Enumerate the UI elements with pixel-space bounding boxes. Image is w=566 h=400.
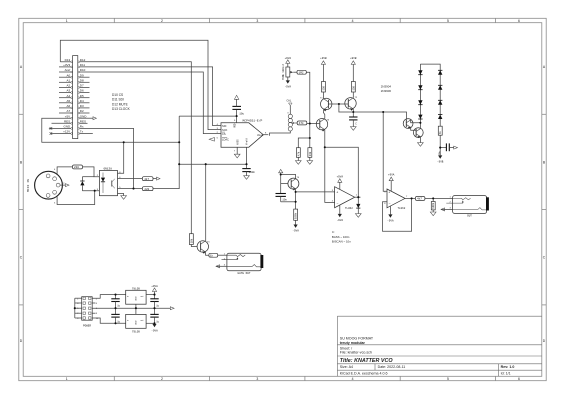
capacitor C8: [150, 295, 159, 309]
svg-text:A5: A5: [67, 99, 71, 103]
svg-text:+9VB: +9VB: [320, 57, 327, 60]
capacitor C 10u at DAC VDD: [232, 99, 244, 123]
transistor Q6 gate NPN: [197, 241, 210, 254]
wire divider branch: [298, 138, 310, 148]
wire C2 node to Q5 collector: [281, 173, 296, 193]
svg-text:47k: 47k: [296, 151, 300, 156]
diode D1 clamp: [356, 197, 360, 213]
wire GND middle rail: [92, 307, 170, 309]
wire branch to DAC VDD: [179, 115, 236, 117]
wire net D12 MUTE down to gate resistor: [80, 62, 192, 234]
svg-text:4: 4: [352, 19, 354, 23]
svg-text:C:: C:: [332, 230, 335, 234]
capacitor C2: [276, 194, 288, 202]
svg-text:-9VB: -9VB: [437, 161, 444, 164]
wire U4 out to +9VA: [146, 294, 154, 296]
svg-text:SDI: SDI: [222, 124, 227, 128]
ground at R12: [430, 212, 436, 216]
svg-text:220: 220: [74, 166, 79, 169]
svg-text:GATE OUT: GATE OUT: [238, 272, 251, 275]
svg-text:79L09: 79L09: [132, 330, 140, 333]
svg-text:MCP4921-E/P: MCP4921-E/P: [243, 118, 263, 122]
resistor R3 220: [142, 187, 153, 191]
ground at R7: [307, 157, 313, 164]
wire Q4 collector to chain node: [411, 120, 421, 123]
svg-text:A2: A2: [67, 84, 71, 88]
power -9VB at R15: [437, 155, 444, 163]
ground at D1: [355, 214, 361, 218]
power flag at C2 node: [279, 169, 283, 172]
transistor Q3 PNP mirror right: [345, 92, 358, 111]
label arrow at C5: [454, 146, 458, 149]
connector P1 Arduino Nano socket: [71, 56, 80, 139]
op-amp U3B TL062: [384, 189, 408, 210]
wire node to op2 input: [383, 112, 387, 191]
wire Q1 emitter node: [325, 130, 335, 203]
svg-text:+9VB: +9VB: [350, 57, 357, 60]
svg-text:Size: A4: Size: A4: [340, 365, 353, 369]
power +9VB at R8: [320, 57, 327, 81]
svg-text:+12V: +12V: [63, 130, 70, 134]
wire gate collector drop: [205, 164, 207, 241]
power -9VA at TUNE pot: [285, 77, 292, 89]
svg-text:33k: 33k: [308, 151, 312, 156]
wire Q4 emitter to Q7 base: [411, 127, 416, 130]
svg-text:Title: KNATTER VCO: Title: KNATTER VCO: [340, 358, 394, 364]
svg-text:Date: 2022-08-11: Date: 2022-08-11: [378, 365, 406, 369]
wire J4 pin4 pin8 stubs: [92, 303, 95, 313]
wire R1 to opto pin2: [83, 167, 100, 177]
svg-text:MIDI IN: MIDI IN: [27, 179, 30, 192]
svg-text:CAL: CAL: [287, 100, 292, 103]
resistor R4 1M at TUNE wiper: [297, 70, 306, 74]
wire U5 out to -9VA: [146, 322, 154, 324]
svg-text:D12 MUTE: D12 MUTE: [112, 102, 128, 106]
svg-text:A4: A4: [67, 94, 71, 98]
svg-text:+: +: [388, 190, 390, 194]
wire R14 to J3: [218, 254, 227, 256]
svg-text:D12: D12: [80, 58, 86, 62]
regulator U4 78L09: [126, 287, 146, 304]
svg-text:GND: GND: [80, 114, 88, 118]
svg-text:−: −: [337, 202, 339, 206]
svg-text:OUT: OUT: [467, 214, 472, 217]
svg-text:A3: A3: [67, 89, 71, 93]
no-connect X marks: [50, 127, 53, 135]
transistor Q2 PNP mirror left: [320, 92, 332, 111]
wire +12V rail to U4: [92, 295, 126, 299]
svg-text:out: out: [141, 319, 144, 322]
svg-text:D11 SDI: D11 SDI: [112, 98, 124, 102]
pin LDAC input arrow: [209, 138, 214, 142]
wire J2 pin3 with label arrow: [441, 208, 453, 211]
wire net D11 SDI: [80, 67, 221, 126]
svg-text:VDD: VDD: [233, 123, 236, 128]
transistor Q7 NPN right: [413, 128, 423, 138]
resistor R11 4k7: [415, 197, 425, 201]
svg-text:BASS ~ 100n: BASS ~ 100n: [332, 235, 350, 239]
svg-text:10u: 10u: [439, 150, 442, 155]
wire Q7 emitter to ground: [419, 137, 421, 143]
power +9VB at R9: [350, 57, 357, 81]
svg-text:10u: 10u: [239, 112, 244, 115]
svg-text:TL062: TL062: [398, 207, 406, 210]
resistor R10 emitter load: [294, 202, 298, 221]
svg-text:+9VA: +9VA: [151, 285, 158, 288]
svg-text:6: 6: [518, 19, 520, 23]
connector J3 GATE OUT jack: [222, 253, 264, 275]
svg-text:+5V: +5V: [65, 114, 70, 118]
potentiometer RV1 TUNE 100k: [282, 64, 297, 80]
capacitor C 100n at VouA: [242, 164, 255, 175]
svg-text:150: 150: [322, 85, 325, 90]
wire -12V rail to U5: [92, 318, 126, 323]
capacitor C7: [111, 308, 120, 323]
svg-text:D13: D13: [65, 58, 71, 62]
wire Q5 emitter to op1 +in: [296, 189, 335, 202]
wire opto Vcc riser: [118, 142, 124, 173]
svg-text:100k: 100k: [432, 202, 435, 209]
svg-text:1: 1: [66, 19, 68, 23]
svg-text:A6: A6: [67, 104, 71, 108]
wire U3B feedback loop: [383, 198, 412, 231]
svg-text:Id: 1/1: Id: 1/1: [501, 372, 511, 376]
svg-text:78L09: 78L09: [132, 287, 140, 290]
wire diode to opto pin3: [82, 190, 99, 192]
wire R11 to jack: [425, 197, 453, 199]
wire J3 pin3 with label arrow: [216, 265, 227, 268]
svg-text:GND: GND: [64, 125, 72, 129]
wire J4 left pins tie: [75, 298, 82, 318]
wire net D13 CLOCK to DAC SCK: [60, 61, 70, 63]
svg-text:TL062: TL062: [345, 207, 353, 210]
power +9VA at TUNE pot: [285, 57, 292, 67]
svg-text:LDAC: LDAC: [222, 137, 229, 141]
ground at DAC AVSS: [234, 147, 240, 158]
svg-text:5: 5: [447, 377, 449, 381]
svg-text:RES: RES: [80, 119, 86, 123]
wire net VouA horizontal: [179, 147, 246, 164]
wire C2 bottom to emitter node: [281, 201, 296, 203]
connector J2 OUT jack: [446, 196, 489, 218]
svg-text:Tx: Tx: [80, 130, 84, 134]
svg-text:2N3904: 2N3904: [381, 84, 392, 88]
wire net D10 CS: [80, 72, 221, 134]
diode D10 1N4148: [80, 177, 94, 191]
resistor R1 220: [73, 165, 83, 169]
svg-text:D5: D5: [80, 94, 84, 98]
svg-text:AVSS: AVSS: [236, 139, 239, 145]
connector right pin labels: [80, 58, 88, 134]
svg-text:D7: D7: [80, 84, 84, 88]
svg-text:VrefA: VrefA: [246, 137, 249, 145]
svg-text:220: 220: [144, 188, 149, 191]
svg-text:treuty modular: treuty modular: [340, 341, 366, 345]
connector J1 MIDI DIN socket: [27, 169, 65, 204]
resistor R7: [308, 148, 312, 158]
svg-text:1: 1: [66, 377, 68, 381]
svg-text:6: 6: [518, 377, 520, 381]
resistor R6: [296, 148, 300, 158]
wire MIDI pin5 loop: [57, 191, 95, 205]
transistor Q5 NPN buffer: [288, 177, 300, 190]
resistor R9: [351, 82, 355, 93]
power +9VA arrow: [151, 285, 158, 295]
svg-text:5: 5: [447, 19, 449, 23]
wire Q1 collector to Q2: [323, 110, 324, 119]
wire opto pin6 to R2: [118, 178, 143, 180]
wire CAL node to Q1 base: [307, 123, 317, 125]
power +9VA at U3A: [337, 175, 344, 189]
resistor R2 4k7: [142, 177, 153, 181]
wire Q6 emitter to R14: [206, 252, 209, 255]
svg-text:D10 CS: D10 CS: [112, 93, 123, 97]
svg-text:D9: D9: [80, 73, 84, 77]
svg-text:2N3906: 2N3906: [381, 89, 392, 93]
svg-text:KiCad E.D.A. eeschema 4.0.6: KiCad E.D.A. eeschema 4.0.6: [340, 372, 388, 376]
svg-text:GND: GND: [136, 296, 138, 301]
svg-text:in: in: [127, 320, 129, 322]
svg-text:D8: D8: [80, 78, 84, 82]
svg-text:150: 150: [352, 85, 355, 90]
wire chain node to Q7 collector: [419, 123, 421, 129]
svg-text:-9VA: -9VA: [387, 220, 394, 223]
power -9VA at U3B: [387, 206, 394, 223]
diode chain D2-D5 left: [418, 64, 422, 123]
svg-text:A1: A1: [67, 78, 71, 82]
wire Q3 collector to node: [352, 109, 354, 112]
svg-text:B/SCAN ~ 10n: B/SCAN ~ 10n: [332, 239, 351, 243]
wire DAC output stub pin 8: [263, 134, 268, 136]
wire net Rx to optocoupler: [80, 128, 134, 188]
svg-text:100k: 100k: [294, 212, 298, 219]
svg-text:−: −: [389, 202, 391, 206]
svg-text:CS: CS: [222, 132, 226, 136]
svg-text:TUNE 100k/A: TUNE 100k/A: [282, 64, 285, 80]
svg-text:3: 3: [256, 19, 258, 23]
svg-text:+9VA: +9VA: [388, 174, 395, 177]
svg-text:2: 2: [161, 377, 163, 381]
svg-text:10k: 10k: [190, 238, 193, 243]
op-amp U3A TL062: [332, 187, 358, 210]
svg-text:D11: D11: [80, 63, 86, 67]
wire +5V branch vertical to opto: [153, 116, 179, 189]
wire node down to divider: [309, 124, 311, 148]
svg-text:D2: D2: [80, 109, 84, 113]
capacitor C6: [111, 295, 120, 309]
wire net +5V rail: [42, 118, 179, 142]
wire emitter to op1 feedback: [325, 147, 359, 197]
capacitor C5 10u output: [439, 143, 454, 155]
svg-text:1k: 1k: [210, 254, 214, 258]
power +5V arrow at DAC cap: [234, 95, 238, 99]
svg-text:1k: 1k: [439, 130, 442, 134]
resistor R15 chain: [438, 126, 442, 155]
svg-text:SCK: SCK: [222, 128, 228, 132]
svg-text:A0: A0: [67, 73, 71, 77]
svg-text:Aref: Aref: [65, 68, 71, 72]
svg-text:D3: D3: [80, 104, 84, 108]
svg-text:3: 3: [256, 377, 258, 381]
svg-text:4: 4: [352, 377, 354, 381]
op-amp U2 DAC MCP4921-E/P body: [217, 118, 267, 152]
trimmer RV2 CAL: [270, 100, 298, 136]
ground at C 100n: [244, 176, 250, 180]
svg-text:-9VA: -9VA: [292, 230, 299, 233]
ground at opto pin7: [118, 194, 127, 200]
power -9VA at R10: [292, 220, 299, 232]
svg-text:in: in: [127, 296, 129, 298]
diode chain D6-D9 right: [420, 64, 442, 126]
power -9VA arrow: [151, 324, 158, 333]
svg-text:-9VA: -9VA: [337, 219, 344, 222]
capacitor C9: [150, 308, 159, 323]
optocoupler U1 6N138: [97, 167, 122, 195]
transistor Q4 PNP right: [403, 119, 413, 129]
wire MIDI pin4 to R1: [57, 167, 72, 174]
regulator U5 79L09: [126, 314, 146, 333]
svg-text:+: +: [336, 191, 338, 195]
svg-text:D4: D4: [80, 99, 84, 103]
text capacitor note: [332, 230, 351, 243]
svg-text:4k7: 4k7: [144, 177, 149, 181]
svg-text:RES: RES: [64, 119, 70, 123]
svg-text:+9VA: +9VA: [337, 175, 344, 178]
svg-text:Rx: Rx: [80, 125, 84, 129]
wire left pin stubs A0-A7 Aref +3V3: [49, 67, 71, 134]
label arrow at R2: [153, 177, 160, 180]
power +9VA at U3B: [388, 174, 395, 192]
resistor R5 47k at CAL wiper: [297, 121, 307, 125]
wire TUNE to mirror base node: [306, 72, 310, 123]
wire mirror diode connection: [339, 104, 353, 112]
wire GND net with label arrow: [80, 117, 97, 120]
ground at C3: [350, 127, 356, 131]
resistor R13 gate base: [189, 234, 198, 247]
svg-text:GND: GND: [136, 320, 138, 325]
power -9VA at U3A: [337, 205, 344, 222]
svg-text:A7: A7: [67, 109, 71, 113]
resistor R8: [322, 82, 326, 93]
svg-text:File: knatter-vco.sch: File: knatter-vco.sch: [340, 350, 372, 354]
svg-text:D10: D10: [80, 68, 86, 72]
svg-text:100n: 100n: [249, 171, 256, 174]
connector J4 POWER header: [77, 297, 99, 328]
svg-text:Rev: 1.0: Rev: 1.0: [501, 365, 515, 369]
svg-text:SU MOOG FORMAT: SU MOOG FORMAT: [340, 336, 374, 340]
svg-text:POWER: POWER: [83, 324, 91, 327]
resistor R14 gate out: [209, 253, 218, 257]
svg-text:-9VA: -9VA: [151, 330, 158, 333]
resistor R12 to ground: [431, 198, 435, 212]
svg-text:6N138: 6N138: [104, 167, 113, 170]
wire U3A output: [355, 196, 361, 198]
transistor Q1 NPN expo: [316, 119, 330, 132]
svg-text:-9VA: -9VA: [285, 86, 292, 89]
svg-text:VoutA: VoutA: [257, 134, 264, 137]
svg-text:+3V3: +3V3: [63, 63, 70, 67]
svg-text:D13 CLOCK: D13 CLOCK: [112, 107, 131, 111]
svg-text:D6: D6: [80, 89, 84, 93]
capacitor C3 at mirror node: [349, 112, 357, 127]
ground at R6: [295, 157, 301, 164]
wire opto pin5 to R3: [118, 188, 143, 190]
connector left pin labels: [63, 58, 71, 134]
svg-text:4k7: 4k7: [417, 197, 422, 201]
text D10-D13 functions: [112, 93, 131, 111]
svg-text:2: 2: [161, 19, 163, 23]
svg-text:out: out: [141, 295, 144, 298]
wire MIDI pin2 stub with arrow: [60, 184, 69, 187]
wire mirror node to Q4 base: [353, 112, 406, 119]
text transistor types: [381, 84, 392, 93]
wire mirror base tie: [328, 103, 348, 105]
svg-text:47k: 47k: [299, 121, 304, 125]
wire U3B output: [405, 197, 415, 199]
svg-text:10n: 10n: [282, 199, 287, 202]
ground at Q7: [418, 143, 424, 147]
wire right pin stubs D9-D2 RES Tx: [80, 77, 93, 133]
wire regulators gnd pins: [135, 304, 137, 314]
label arrow GND rail: [170, 307, 174, 310]
svg-text:1M2: 1M2: [299, 72, 304, 75]
